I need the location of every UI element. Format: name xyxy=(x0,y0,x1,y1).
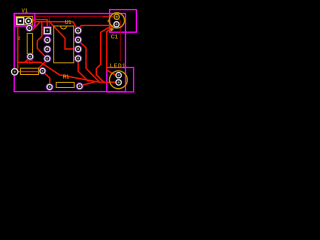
pad V1.1 (square) xyxy=(17,18,24,25)
wire V1.1 down left side xyxy=(15,23,20,72)
capacitor C1 outline (magenta box) xyxy=(110,10,137,33)
wire down to U1 pin4 xyxy=(37,22,47,59)
wire V1.1 to U1 pin1 (upper) xyxy=(21,20,47,29)
wire R1 right pad join xyxy=(82,82,96,86)
svg-text:C1: C1 xyxy=(111,34,118,40)
wire branch to U1 pin6 (inside IC) xyxy=(48,21,76,49)
capacitor C1 circle xyxy=(109,13,124,28)
pad R-left right xyxy=(39,68,46,75)
wire junction to LED1 bottom xyxy=(18,62,116,82)
pad LED1 top xyxy=(116,73,121,78)
svg-text:V1: V1 xyxy=(22,9,28,15)
pad C1 bottom xyxy=(114,22,119,27)
board outline xyxy=(14,14,125,92)
pad U1 pin8 xyxy=(75,27,82,34)
wire bottom copper vertical to U1 pin1 xyxy=(48,17,50,28)
pad R2 top xyxy=(26,25,33,32)
resistor R1 body xyxy=(56,82,74,87)
wire U1 pin5 down xyxy=(78,62,88,82)
svg-text:R1: R1 xyxy=(63,75,70,81)
wire C1 top pad to right vertical (dark red) xyxy=(117,17,121,62)
resistor R2 body xyxy=(27,33,32,53)
pad U1 pin2 xyxy=(44,36,51,43)
pad U1 pin5 xyxy=(75,55,82,62)
pad R1 left xyxy=(46,84,53,91)
pad U1 pin3 xyxy=(44,46,51,53)
wire V1.2 to U1 pin8 (lower) xyxy=(33,20,77,30)
LED1 outline (magenta box) xyxy=(107,68,134,92)
wire U1 pin4 to R-left right pad xyxy=(39,60,47,71)
pad U1 pin6 xyxy=(75,46,82,53)
capacitor C1 plus mark xyxy=(107,20,110,23)
capacitor C1 minus triangle xyxy=(110,28,114,32)
wire bottom copper to C1 pad xyxy=(103,16,113,18)
svg-text:2: 2 xyxy=(18,36,21,42)
pad U1 pin7 xyxy=(75,36,82,43)
wire bottom copper horizontal (dark red net) xyxy=(35,16,107,18)
wire under R-left body xyxy=(15,71,42,73)
wire to R2 top pad xyxy=(32,22,40,31)
connector V1 outline (magenta box) xyxy=(14,14,35,27)
pad U1 pin4 xyxy=(44,55,51,62)
wire C1 bottom to LED area (jog) xyxy=(96,24,116,82)
wire R2 bottom pad join xyxy=(25,59,29,63)
pad R1 right xyxy=(76,83,83,90)
pad V1.2 (round) xyxy=(25,18,31,24)
svg-text:LED1: LED1 xyxy=(110,64,125,70)
pad U1 pin1 (square) xyxy=(43,27,51,35)
LED1 circle xyxy=(110,71,128,89)
wire R-left right pad to R1 left pad xyxy=(43,71,50,87)
svg-text:U1: U1 xyxy=(65,20,72,26)
svg-text:R2: R2 xyxy=(27,60,34,66)
IC U1 notch xyxy=(61,26,67,29)
resistor R-left body xyxy=(20,68,38,74)
pad LED1 bottom xyxy=(116,80,121,85)
wire U1 pin8 to C1 bottom xyxy=(79,25,113,28)
silkscreen V1 box xyxy=(16,16,33,24)
IC U1 body xyxy=(54,26,74,63)
wire U1 pin7 down right xyxy=(79,41,100,82)
pad C1 top (gold ring) xyxy=(114,14,119,19)
wire C1 bottom to LED1 top xyxy=(107,28,116,76)
pad R2 bottom xyxy=(27,53,34,60)
pad R-left left (on board edge) xyxy=(12,69,18,75)
